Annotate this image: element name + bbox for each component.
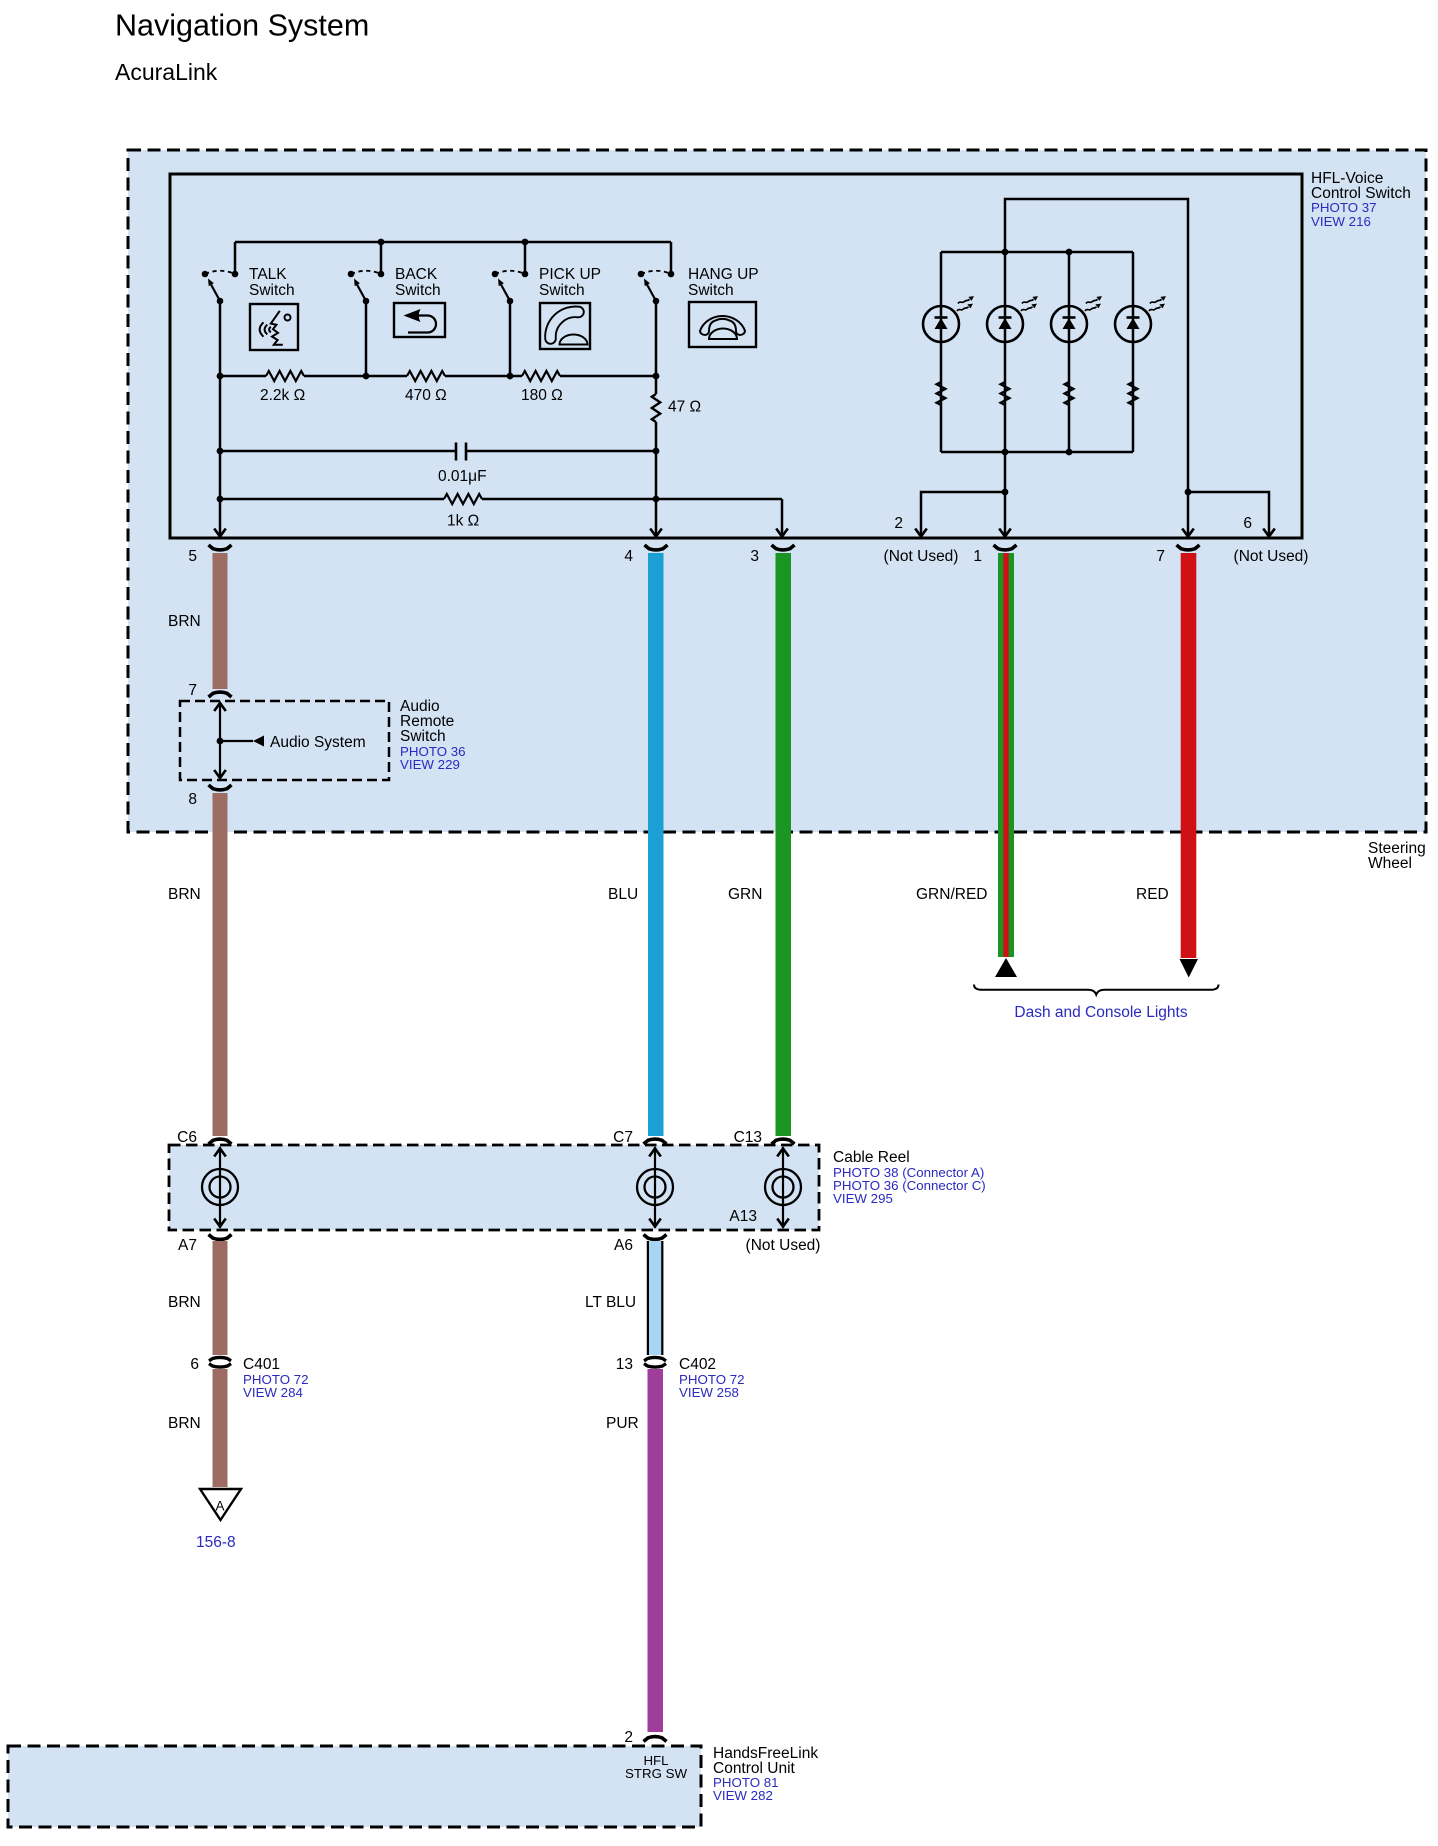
svg-text:GRN/RED: GRN/RED <box>916 886 987 903</box>
node: pin6 branch <box>1185 489 1192 496</box>
node: cap row left <box>217 448 224 455</box>
svg-text:2: 2 <box>624 1729 633 1746</box>
arrow to audio system <box>253 736 264 747</box>
wire: TALK drop to pin 5 <box>219 301 222 535</box>
LED D3 column <box>1051 252 1102 452</box>
HFL-voice control switch box U1 <box>170 174 1302 538</box>
svg-text:HANG UP: HANG UP <box>688 266 759 283</box>
svg-text:7: 7 <box>1156 548 1165 565</box>
svg-text:PUR: PUR <box>606 1415 639 1432</box>
svg-text:A: A <box>215 1499 224 1514</box>
wire W8 LT BLU A6 to C402 <box>647 1241 664 1355</box>
wire: BACK drop <box>365 301 368 376</box>
svg-text:AcuraLink: AcuraLink <box>115 59 218 85</box>
node: resistor row junction at TALK drop <box>217 373 224 380</box>
svg-text:VIEW 284: VIEW 284 <box>243 1385 303 1400</box>
connector pin 7 <box>1177 545 1200 550</box>
connector 2 (HFL control unit) <box>644 1737 667 1742</box>
svg-text:2: 2 <box>894 515 903 532</box>
wire: LED anode rail <box>941 251 1133 254</box>
svg-text:Navigation System: Navigation System <box>115 9 369 43</box>
wire: branch to pin 2 <box>921 492 1005 535</box>
connector pin 1 <box>994 545 1017 550</box>
LED D1 column <box>923 252 974 452</box>
connector A6 <box>644 1235 667 1240</box>
svg-text:47 Ω: 47 Ω <box>668 399 701 416</box>
svg-text:Switch: Switch <box>539 282 585 299</box>
svg-text:2.2k Ω: 2.2k Ω <box>260 387 305 404</box>
arrow into pin 6 <box>1263 529 1275 537</box>
wire W5 GRN/RED pin1 to dash lights <box>998 553 1014 957</box>
node: cap row right <box>653 448 660 455</box>
connector C13 <box>772 1139 795 1144</box>
wire W10 PUR C402 to HFL control unit <box>648 1369 664 1732</box>
audio remote switch box (dashed) <box>180 701 389 780</box>
dash lights arrow up <box>995 958 1017 977</box>
node: 1k row left <box>217 496 224 503</box>
svg-text:4: 4 <box>624 548 633 565</box>
LED D4 column <box>1115 252 1166 452</box>
icon: pick up handset <box>540 303 590 349</box>
wire W7 BRN A7 to C401 <box>213 1241 228 1355</box>
cable reel coil 1 <box>202 1147 238 1228</box>
svg-text:Switch: Switch <box>395 282 441 299</box>
wire W1 BRN pin5 to audio remote switch <box>213 553 228 689</box>
wire: top bus rail <box>235 241 671 244</box>
svg-text:6: 6 <box>1243 515 1252 532</box>
wire W4 GRN pin3 to cable reel C13 <box>776 553 792 1136</box>
arrow into pin 1 <box>999 529 1011 537</box>
wire: LED cathode rail <box>941 451 1133 454</box>
svg-text:PHOTO 37: PHOTO 37 <box>1311 200 1377 215</box>
icon: talk <box>250 304 298 350</box>
connector C402 <box>644 1357 666 1360</box>
audio remote switch internal wire <box>219 703 221 777</box>
svg-text:C401: C401 <box>243 1356 280 1373</box>
LED D2 column <box>987 252 1038 452</box>
svg-text:BACK: BACK <box>395 266 438 283</box>
arrow into pin 5 <box>214 529 226 537</box>
cable reel box (dashed) <box>169 1145 819 1230</box>
svg-text:C402: C402 <box>679 1356 716 1373</box>
svg-text:BRN: BRN <box>168 1294 201 1311</box>
svg-text:156-8: 156-8 <box>196 1534 236 1551</box>
svg-text:Dash and Console Lights: Dash and Console Lights <box>1014 1004 1187 1021</box>
resistor R5 1k row <box>220 498 782 501</box>
node: cathode rail junction D3 <box>1066 449 1073 456</box>
svg-text:TALK: TALK <box>249 266 287 283</box>
svg-text:(Not Used): (Not Used) <box>1234 548 1309 565</box>
node: audio tap <box>217 738 224 745</box>
svg-text:13: 13 <box>616 1356 633 1373</box>
svg-text:PICK UP: PICK UP <box>539 266 601 283</box>
svg-text:VIEW 282: VIEW 282 <box>713 1788 773 1803</box>
arrow into pin 7 <box>1182 529 1194 537</box>
node: bus junction over BACK switch <box>378 239 385 246</box>
arrow into pin 4 <box>650 529 662 537</box>
svg-text:RED: RED <box>1136 886 1169 903</box>
switch S3 PICK UP <box>492 242 529 304</box>
svg-text:VIEW 216: VIEW 216 <box>1311 214 1371 229</box>
switch S1 TALK <box>202 242 239 304</box>
connector C401 <box>209 1357 231 1360</box>
node: resistor row junction at HANG UP drop <box>653 373 660 380</box>
svg-text:3: 3 <box>750 548 759 565</box>
svg-text:8: 8 <box>188 791 197 808</box>
steering wheel enclosure (dashed) <box>128 150 1426 832</box>
icon: back arrow <box>394 303 445 337</box>
wire: drop to pin 3 <box>781 499 784 535</box>
svg-text:Switch: Switch <box>688 282 734 299</box>
svg-text:A13: A13 <box>729 1208 757 1225</box>
brace: dash and console lights <box>974 985 1219 995</box>
svg-text:C6: C6 <box>177 1129 197 1146</box>
node: anode rail junction D2 <box>1002 249 1009 256</box>
connector A7 <box>209 1235 232 1240</box>
svg-text:(Not Used): (Not Used) <box>746 1237 821 1254</box>
svg-text:C7: C7 <box>613 1129 633 1146</box>
svg-text:Wheel: Wheel <box>1368 855 1412 872</box>
svg-text:A6: A6 <box>614 1237 633 1254</box>
connector 8 <box>209 785 232 790</box>
connector 7 (audio remote switch) <box>209 692 232 697</box>
node: resistor row junction at PICK UP drop <box>507 373 514 380</box>
node: resistor row junction at BACK drop <box>363 373 370 380</box>
resistor R2 470 <box>407 371 445 381</box>
node: 1k row cross <box>653 496 660 503</box>
wire: audio system tap <box>220 740 253 742</box>
switch S2 BACK <box>348 242 385 304</box>
svg-text:LT BLU: LT BLU <box>585 1294 636 1311</box>
cable reel coil 2 <box>637 1147 673 1228</box>
arrow into pin 3 <box>776 529 788 537</box>
connector pin 5 <box>209 545 232 550</box>
wire: LED top feed <box>1005 199 1188 535</box>
svg-text:BRN: BRN <box>168 1415 201 1432</box>
svg-text:Switch: Switch <box>400 728 446 745</box>
svg-text:5: 5 <box>188 548 197 565</box>
svg-text:6: 6 <box>190 1356 199 1373</box>
svg-text:1: 1 <box>973 548 982 565</box>
svg-text:BRN: BRN <box>168 886 201 903</box>
switch S4 HANG UP <box>638 242 675 304</box>
svg-text:Audio System: Audio System <box>270 734 366 751</box>
wire W9 BRN C401 to ground <box>213 1369 228 1487</box>
svg-text:1k Ω: 1k Ω <box>447 513 479 530</box>
arrow into pin 2 <box>915 529 927 537</box>
connector pin 4 <box>645 545 668 550</box>
svg-text:BRN: BRN <box>168 613 201 630</box>
connector C6 <box>209 1139 232 1144</box>
svg-text:180 Ω: 180 Ω <box>521 387 563 404</box>
node: bus junction over PICK UP switch <box>522 239 529 246</box>
svg-text:GRN: GRN <box>728 886 762 903</box>
svg-text:470 Ω: 470 Ω <box>405 387 447 404</box>
svg-text:VIEW 258: VIEW 258 <box>679 1385 739 1400</box>
wire: branch to pin 6 <box>1188 492 1269 535</box>
node: cathode rail junction D2 <box>1002 449 1009 456</box>
capacitor C1 0.01uF <box>456 443 466 461</box>
dash lights arrow down <box>1180 959 1199 978</box>
connector C7 <box>644 1139 667 1144</box>
svg-text:0.01μF: 0.01μF <box>438 468 487 485</box>
svg-text:Switch: Switch <box>249 282 295 299</box>
svg-text:Cable Reel: Cable Reel <box>833 1149 910 1166</box>
resistor R3 180 <box>522 371 560 381</box>
svg-text:(Not Used): (Not Used) <box>884 548 959 565</box>
node: anode rail junction D3 <box>1066 249 1073 256</box>
connector pin 3 <box>772 545 795 550</box>
wire: PICK UP drop <box>509 301 512 376</box>
wire: resistor row <box>220 375 656 378</box>
svg-text:C13: C13 <box>734 1129 762 1146</box>
resistor R4 47 <box>652 394 660 422</box>
wire: cathode rail to pin 1 <box>1004 452 1007 535</box>
svg-text:STRG SW: STRG SW <box>625 1766 687 1781</box>
svg-text:VIEW 229: VIEW 229 <box>400 757 460 772</box>
node: pin2 branch <box>1002 489 1009 496</box>
wire W2 BRN to cable reel C6 <box>213 793 228 1136</box>
ground G1 (A) <box>200 1489 241 1520</box>
capacitor C1 row <box>220 450 656 453</box>
svg-text:BLU: BLU <box>608 886 638 903</box>
icon: hang up handset <box>689 302 756 347</box>
resistor R1 2.2k <box>266 371 304 381</box>
svg-text:VIEW 295: VIEW 295 <box>833 1191 893 1206</box>
wire W3 BLU pin4 to cable reel C7 <box>648 553 664 1136</box>
svg-text:7: 7 <box>188 682 197 699</box>
wire W6 RED pin7 to dash lights <box>1181 553 1197 958</box>
svg-text:A7: A7 <box>178 1237 197 1254</box>
wire: HANG UP drop to pin 4 <box>655 301 658 535</box>
handsfreelink control unit box (dashed) <box>8 1746 701 1827</box>
cable reel coil 3 <box>765 1147 801 1228</box>
